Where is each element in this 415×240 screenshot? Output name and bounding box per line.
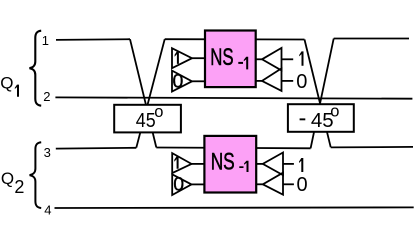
wire BS1 crossing line A (mode 1 into mode 3) — [130, 39, 156, 147]
detector triangle 1 of U1 — [256, 48, 294, 71]
svg-text:Q: Q — [0, 74, 13, 93]
wire mode 1 right segment — [334, 38, 409, 40]
svg-text:45: 45 — [136, 110, 156, 132]
detector triangle 0 of U2 — [256, 173, 294, 195]
wire mode 1 middle segment — [165, 38, 305, 40]
detector triangle 0 of U1 — [256, 68, 294, 91]
svg-text:NS: NS — [211, 149, 235, 175]
label 1 inside input triangle of U2 — [174, 156, 178, 169]
wire BS1 crossing line B (mode 3 into mode 1) — [136, 39, 164, 148]
wire mode 3 middle segment — [156, 147, 310, 150]
brace qubit Q2 — [30, 142, 42, 208]
label 1 at detector of U2 — [299, 158, 303, 172]
beam splitter box -45deg — [288, 103, 354, 132]
svg-text:3: 3 — [44, 145, 51, 160]
label 1 at detector of U1 — [299, 51, 303, 65]
svg-text:o: o — [330, 103, 339, 121]
svg-text:Q: Q — [1, 169, 14, 188]
wire BS2 crossing line B (mode 3 into mode 1) — [311, 39, 334, 149]
svg-text:0: 0 — [173, 70, 184, 92]
wire mode 4 — [55, 206, 414, 209]
svg-text:0: 0 — [297, 174, 308, 196]
NS-1 gate U1 (qubit Q1) — [205, 31, 256, 88]
detector triangle 1 of U2 — [256, 153, 294, 176]
svg-text:0: 0 — [296, 71, 307, 93]
svg-text:1: 1 — [42, 33, 49, 48]
wire mode 3 left segment — [56, 147, 137, 150]
svg-text:2: 2 — [14, 177, 24, 197]
wire mode 1 left segment — [56, 38, 130, 41]
ancilla input triangle |1> of U2 — [172, 153, 204, 173]
ancilla input triangle |0> of U2 — [172, 174, 204, 195]
ancilla input triangle |1> of U1 — [172, 48, 205, 68]
ancilla input triangle |0> of U1 — [172, 71, 205, 92]
brace qubit Q1 — [30, 31, 42, 106]
svg-text:o: o — [154, 103, 163, 121]
NS-1 gate U2 (qubit Q2) — [204, 136, 256, 193]
wire mode 2 — [55, 97, 412, 98]
svg-text:4: 4 — [44, 202, 51, 217]
beam splitter box 45deg — [114, 103, 181, 132]
svg-text:2: 2 — [43, 89, 50, 104]
wire BS2 crossing line A (mode 1 into mode 3) — [305, 40, 331, 148]
wire mode 3 right segment — [331, 146, 413, 149]
label 1 inside input triangle of U1 — [175, 51, 179, 64]
svg-text:NS: NS — [210, 44, 233, 71]
svg-text:0: 0 — [173, 174, 184, 196]
